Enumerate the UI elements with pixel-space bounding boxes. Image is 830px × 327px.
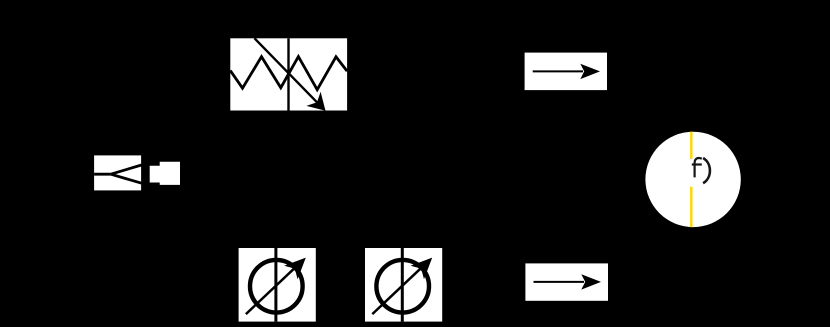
phase shifter PS1 box <box>239 248 316 322</box>
microwave source (klystron) body <box>94 155 141 190</box>
PS1 adjustment arrow <box>246 258 306 315</box>
PS2 divider line <box>401 248 404 322</box>
PS2 phase circle <box>376 260 429 313</box>
attenuator resistor zigzag <box>230 57 347 90</box>
phase shifter PS2 box <box>365 248 442 322</box>
attenuator adjustment arrow <box>255 38 326 111</box>
attenuator center divider line <box>287 38 289 110</box>
variable attenuator box <box>230 38 347 110</box>
PS1 phase circle <box>250 260 303 313</box>
detector / display circle <box>645 132 740 227</box>
display trace yellow line (upper segment) <box>690 132 692 159</box>
isolator (top) box <box>525 53 607 91</box>
display trace yellow line (lower segment) <box>690 187 692 228</box>
panel label f) <box>692 158 710 183</box>
isolator (bottom) arrow <box>534 274 602 289</box>
isolator (top) arrow <box>533 64 600 79</box>
PS1 divider line <box>274 248 277 322</box>
source output flange / waveguide adapter <box>150 162 180 185</box>
PS2 adjustment arrow <box>372 258 432 315</box>
isolator (bottom) box <box>525 263 608 300</box>
